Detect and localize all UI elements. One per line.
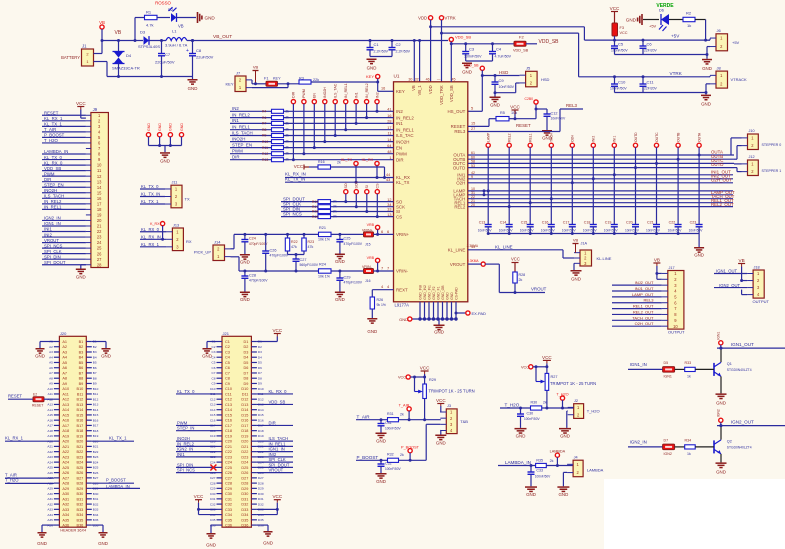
svg-text:C23: C23 — [690, 221, 697, 225]
svg-text:B1: B1 — [79, 340, 84, 344]
svg-text:A27: A27 — [62, 476, 69, 480]
svg-text:GND: GND — [526, 492, 536, 497]
svg-text:C26: C26 — [270, 249, 277, 253]
svg-text:J2: J2 — [574, 399, 578, 403]
svg-text:B7: B7 — [79, 371, 84, 375]
svg-text:A29: A29 — [47, 487, 53, 491]
svg-text:IGN2: IGN2 — [664, 452, 672, 456]
svg-text:D35: D35 — [241, 518, 248, 522]
svg-text:A4: A4 — [49, 355, 53, 359]
svg-text:GND_IN2: GND_IN2 — [423, 285, 427, 300]
svg-text:B5: B5 — [93, 361, 97, 365]
svg-text:C33: C33 — [225, 508, 232, 512]
svg-text:PWM: PWM — [232, 149, 243, 154]
svg-text:L1: L1 — [172, 29, 177, 34]
svg-text:B34: B34 — [93, 513, 99, 517]
svg-text:TRIMPOT 1K - 25 TURN: TRIMPOT 1K - 25 TURN — [550, 381, 596, 386]
svg-text:A31: A31 — [47, 497, 53, 501]
svg-text:GND: GND — [716, 469, 726, 474]
svg-text:C4: C4 — [496, 47, 502, 52]
svg-text:KEY: KEY — [396, 89, 405, 94]
svg-text:B6: B6 — [79, 366, 84, 370]
svg-text:C19: C19 — [605, 221, 612, 225]
svg-text:B10: B10 — [77, 387, 84, 391]
svg-text:14: 14 — [97, 185, 102, 190]
svg-text:1: 1 — [389, 156, 391, 160]
svg-text:2.3KMA: 2.3KMA — [467, 259, 479, 263]
svg-text:IGN1_IN: IGN1_IN — [630, 362, 647, 367]
svg-text:STEP_EN: STEP_EN — [232, 142, 252, 147]
svg-text:+5V: +5V — [732, 40, 740, 45]
svg-text:C4: C4 — [212, 355, 216, 359]
svg-text:13: 13 — [97, 179, 102, 184]
svg-text:1: 1 — [86, 59, 88, 64]
svg-text:A26: A26 — [62, 471, 69, 475]
svg-text:10: 10 — [97, 163, 102, 168]
svg-text:B7: B7 — [93, 371, 97, 375]
svg-text:LAMBDA_IN: LAMBDA_IN — [505, 460, 531, 465]
svg-text:R28: R28 — [519, 273, 526, 277]
svg-text:VCC: VCC — [272, 328, 282, 333]
svg-text:D23: D23 — [241, 455, 248, 459]
svg-text:R16: R16 — [318, 160, 325, 164]
svg-text:C3: C3 — [469, 47, 475, 52]
svg-text:IN2: IN2 — [396, 109, 403, 114]
svg-text:LAMP_OUT: LAMP_OUT — [632, 292, 654, 297]
svg-text:+5V: +5V — [671, 34, 680, 39]
svg-text:C32: C32 — [225, 503, 232, 507]
svg-text:C31: C31 — [210, 497, 216, 501]
svg-text:C12: C12 — [225, 398, 232, 402]
svg-text:D5: D5 — [664, 361, 669, 365]
svg-text:GND: GND — [516, 433, 526, 438]
svg-text:REL1: REL1 — [529, 133, 533, 142]
svg-text:C6: C6 — [225, 366, 230, 370]
svg-text:J3: J3 — [447, 404, 451, 408]
svg-text:GND: GND — [702, 66, 712, 71]
svg-text:A2: A2 — [62, 345, 67, 349]
svg-text:C5: C5 — [618, 42, 624, 47]
svg-text:A18: A18 — [62, 429, 69, 433]
svg-text:INI2: INI2 — [269, 452, 277, 457]
svg-text:27: 27 — [471, 127, 475, 131]
svg-text:D3: D3 — [244, 350, 249, 354]
svg-text:C8: C8 — [225, 377, 230, 381]
svg-text:100nF/50V: 100nF/50V — [385, 427, 401, 431]
svg-text:IGN1_OUT: IGN1_OUT — [731, 342, 754, 347]
svg-text:R1: R1 — [146, 10, 152, 15]
svg-text:J17: J17 — [669, 266, 675, 270]
svg-text:A15: A15 — [62, 413, 69, 417]
svg-text:A25: A25 — [62, 466, 69, 470]
svg-text:T_H2O: T_H2O — [5, 478, 19, 483]
svg-text:20: 20 — [471, 203, 475, 207]
svg-text:C12: C12 — [551, 112, 558, 116]
svg-text:C30: C30 — [210, 492, 216, 496]
svg-text:1k: 1k — [687, 452, 691, 456]
svg-text:D33: D33 — [241, 508, 248, 512]
svg-text:C10: C10 — [210, 387, 216, 391]
svg-text:A36: A36 — [62, 524, 69, 528]
svg-text:11: 11 — [97, 168, 102, 173]
svg-text:C17: C17 — [225, 424, 232, 428]
svg-text:GND: GND — [434, 330, 444, 335]
svg-text:B3: B3 — [93, 350, 97, 354]
svg-text:B15: B15 — [93, 413, 99, 417]
svg-text:SPI_NCS: SPI_NCS — [283, 211, 302, 216]
svg-text:VCC: VCC — [521, 365, 529, 369]
svg-text:VCC: VCC — [398, 376, 406, 380]
svg-text:GND: GND — [450, 292, 454, 300]
svg-text:A7: A7 — [49, 371, 53, 375]
svg-text:R29: R29 — [429, 378, 436, 382]
svg-text:D3: D3 — [258, 350, 262, 354]
svg-text:VB: VB — [654, 258, 660, 263]
svg-text:D34: D34 — [241, 513, 248, 517]
svg-text:B32: B32 — [77, 503, 84, 507]
svg-text:B27: B27 — [93, 476, 99, 480]
svg-text:GND: GND — [376, 439, 386, 444]
svg-text:SCK: SCK — [355, 181, 359, 189]
svg-text:F3: F3 — [620, 26, 624, 30]
svg-text:A16: A16 — [47, 418, 53, 422]
svg-text:C15: C15 — [521, 221, 528, 225]
svg-text:KEY: KEY — [366, 74, 374, 79]
svg-text:U1: U1 — [394, 74, 400, 79]
svg-text:REL3: REL3 — [643, 298, 654, 303]
svg-text:A15: A15 — [47, 413, 53, 417]
svg-text:CS: CS — [376, 183, 380, 189]
svg-text:D14: D14 — [241, 408, 248, 412]
svg-text:C2B0: C2B0 — [525, 97, 534, 101]
svg-text:2k: 2k — [519, 278, 523, 282]
svg-text:43: 43 — [386, 178, 390, 182]
svg-text:2k: 2k — [543, 400, 547, 404]
svg-text:19: 19 — [97, 213, 102, 218]
svg-text:VCC: VCC — [511, 257, 520, 262]
svg-text:10k 1%: 10k 1% — [318, 275, 331, 279]
svg-text:D19: D19 — [241, 434, 248, 438]
svg-text:C29: C29 — [210, 487, 216, 491]
svg-text:VTRK: VTRK — [670, 71, 683, 76]
svg-text:C23: C23 — [225, 455, 232, 459]
svg-text:VDD_SB: VDD_SB — [539, 39, 560, 45]
svg-text:VRIN+: VRIN+ — [362, 229, 373, 233]
svg-text:A35: A35 — [47, 518, 53, 522]
svg-text:C7: C7 — [165, 52, 171, 57]
svg-text:B17: B17 — [77, 424, 84, 428]
svg-text:D13: D13 — [241, 403, 248, 407]
svg-text:C21: C21 — [225, 445, 232, 449]
svg-text:A9: A9 — [62, 382, 67, 386]
svg-text:41: 41 — [387, 108, 391, 112]
svg-text:IGN2: IGN2 — [717, 409, 721, 417]
svg-text:VCC: VCC — [610, 6, 620, 11]
svg-text:A11: A11 — [62, 392, 68, 396]
svg-text:C16: C16 — [210, 418, 216, 422]
svg-text:C31: C31 — [225, 497, 232, 501]
svg-text:22F/20V: 22F/20V — [644, 87, 658, 91]
svg-text:4.7uF/50V: 4.7uF/50V — [495, 55, 512, 59]
svg-text:VRB: VRB — [367, 223, 375, 227]
svg-text:B31: B31 — [77, 497, 84, 501]
svg-text:A21: A21 — [47, 445, 53, 449]
svg-text:J15: J15 — [365, 243, 371, 247]
svg-text:A14: A14 — [62, 408, 69, 412]
svg-text:VB: VB — [573, 238, 579, 243]
svg-text:C8: C8 — [212, 376, 216, 380]
svg-text:A12: A12 — [62, 398, 69, 402]
svg-text:REXT: REXT — [396, 287, 408, 292]
svg-text:IN_REL1: IN_REL1 — [232, 125, 250, 130]
svg-text:A29: A29 — [62, 487, 69, 491]
svg-text:10nF/50V: 10nF/50V — [668, 229, 683, 233]
svg-text:HSD: HSD — [541, 77, 550, 82]
svg-text:C17: C17 — [563, 221, 570, 225]
svg-text:GND: GND — [147, 123, 151, 131]
svg-text:A3: A3 — [62, 350, 67, 354]
svg-text:B21: B21 — [93, 445, 99, 449]
svg-text:A31: A31 — [62, 497, 69, 501]
svg-text:C11: C11 — [225, 392, 232, 396]
svg-text:25: 25 — [97, 246, 102, 251]
svg-text:A3: A3 — [49, 350, 53, 354]
svg-text:LAMBDA: LAMBDA — [587, 468, 604, 473]
svg-text:C35: C35 — [210, 518, 216, 522]
svg-text:R17: R17 — [312, 205, 318, 209]
svg-text:D7: D7 — [664, 438, 669, 442]
svg-text:B23: B23 — [77, 455, 84, 459]
svg-text:B26: B26 — [93, 471, 99, 475]
svg-text:B28: B28 — [77, 482, 84, 486]
svg-text:C9: C9 — [212, 382, 216, 386]
svg-text:C20: C20 — [626, 221, 633, 225]
svg-text:C6: C6 — [647, 42, 653, 47]
svg-text:B4: B4 — [79, 356, 84, 360]
svg-text:REL2_OUT: REL2_OUT — [711, 202, 734, 207]
svg-text:R6: R6 — [262, 116, 266, 120]
svg-text:GND: GND — [571, 277, 581, 282]
svg-text:470pF/100V: 470pF/100V — [270, 254, 289, 258]
svg-text:INJ1_OUT: INJ1_OUT — [635, 286, 654, 291]
svg-text:EN: EN — [313, 93, 317, 98]
svg-text:VCC: VCC — [510, 105, 520, 110]
svg-text:KL_LINE: KL_LINE — [448, 248, 466, 253]
svg-text:GND: GND — [37, 541, 47, 546]
svg-text:INI2: INI2 — [592, 136, 596, 142]
svg-text:IGN1: IGN1 — [664, 374, 672, 378]
svg-text:T_AIR: T_AIR — [5, 472, 17, 477]
svg-text:B15: B15 — [77, 413, 84, 417]
svg-text:GND: GND — [169, 123, 173, 131]
svg-text:10k 1%: 10k 1% — [318, 238, 331, 242]
svg-text:GND: GND — [240, 260, 250, 265]
svg-text:VCC: VCC — [542, 355, 552, 360]
svg-text:A30: A30 — [62, 492, 69, 496]
svg-text:IN2: IN2 — [232, 106, 239, 111]
svg-text:IN_REL1: IN_REL1 — [344, 83, 348, 98]
svg-text:470pF/100V: 470pF/100V — [344, 242, 363, 246]
svg-text:VROUT: VROUT — [531, 287, 547, 292]
svg-text:C10: C10 — [225, 387, 232, 391]
svg-text:GND: GND — [436, 441, 446, 446]
svg-text:GND: GND — [445, 292, 449, 300]
svg-text:F1: F1 — [264, 77, 268, 81]
svg-text:C22: C22 — [669, 221, 676, 225]
svg-text:KL_RX: KL_RX — [362, 158, 374, 162]
svg-text:C5: C5 — [225, 361, 230, 365]
svg-text:D7: D7 — [244, 371, 249, 375]
svg-text:C34: C34 — [225, 513, 232, 517]
svg-text:A26: A26 — [47, 471, 53, 475]
svg-text:A30: A30 — [47, 492, 53, 496]
svg-text:B19: B19 — [77, 434, 84, 438]
svg-text:A32: A32 — [47, 502, 53, 506]
svg-text:44: 44 — [386, 173, 390, 177]
svg-text:GND: GND — [462, 70, 472, 75]
svg-text:B3: B3 — [79, 350, 84, 354]
svg-text:R35: R35 — [536, 458, 543, 462]
svg-text:A34: A34 — [62, 513, 69, 517]
svg-text:GND: GND — [263, 541, 273, 546]
svg-text:26: 26 — [97, 251, 102, 256]
svg-text:A8: A8 — [62, 377, 67, 381]
svg-text:C20: C20 — [225, 440, 232, 444]
svg-text:B30: B30 — [93, 492, 99, 496]
svg-text:T_H2O: T_H2O — [587, 409, 600, 414]
svg-text:IN1: IN1 — [396, 121, 403, 126]
svg-text:C7: C7 — [212, 371, 216, 375]
svg-text:C3: C3 — [225, 350, 230, 354]
svg-text:B2: B2 — [79, 345, 84, 349]
svg-text:48: 48 — [387, 150, 391, 154]
svg-text:B22: B22 — [77, 450, 84, 454]
svg-text:E2: E2 — [33, 392, 37, 396]
svg-text:B27: B27 — [77, 476, 84, 480]
svg-text:C6: C6 — [212, 366, 216, 370]
svg-text:IGN2_IN: IGN2_IN — [630, 440, 647, 445]
svg-text:C13: C13 — [210, 403, 216, 407]
svg-text:D21: D21 — [241, 445, 248, 449]
svg-text:B25: B25 — [77, 466, 84, 470]
svg-text:J21: J21 — [223, 331, 230, 336]
svg-text:J1A: J1A — [581, 242, 588, 246]
svg-text:INO2H: INO2H — [323, 87, 327, 98]
svg-text:15: 15 — [471, 122, 475, 126]
svg-text:D19: D19 — [258, 434, 264, 438]
svg-text:12: 12 — [97, 174, 102, 179]
svg-text:A22: A22 — [47, 450, 53, 454]
svg-text:4.7k: 4.7k — [146, 23, 154, 28]
svg-text:B4: B4 — [93, 355, 97, 359]
svg-text:VCC: VCC — [76, 101, 86, 106]
svg-text:IN_REL2: IN_REL2 — [177, 441, 195, 446]
svg-text:GND: GND — [160, 159, 170, 164]
svg-text:IN2: IN2 — [375, 92, 379, 98]
svg-text:VRIN-: VRIN- — [396, 269, 408, 274]
svg-text:VB: VB — [178, 24, 184, 29]
svg-text:2.3KMA: 2.3KMA — [467, 244, 479, 248]
svg-text:RESET: RESET — [8, 393, 22, 398]
svg-text:B36: B36 — [77, 524, 84, 528]
svg-text:RESET: RESET — [516, 123, 531, 128]
svg-text:A17: A17 — [47, 424, 53, 428]
svg-text:R19: R19 — [312, 215, 318, 219]
svg-text:KL_RX_0: KL_RX_0 — [269, 389, 288, 394]
svg-text:20: 20 — [97, 218, 102, 223]
svg-text:ILS_TAC: ILS_TAC — [334, 83, 338, 98]
svg-text:C14: C14 — [500, 221, 507, 225]
svg-text:GND: GND — [202, 354, 212, 359]
svg-text:B22: B22 — [93, 450, 99, 454]
svg-text:A19: A19 — [62, 434, 69, 438]
svg-text:VCC: VCC — [294, 164, 303, 169]
svg-text:KL_LINE: KL_LINE — [495, 244, 513, 249]
svg-text:C28: C28 — [249, 274, 256, 278]
svg-text:16: 16 — [381, 87, 385, 91]
svg-text:C10: C10 — [618, 80, 626, 85]
svg-text:O2H_OUT: O2H_OUT — [635, 321, 654, 326]
svg-text:B24: B24 — [77, 461, 84, 465]
svg-text:A17: A17 — [62, 424, 69, 428]
svg-text:24: 24 — [97, 240, 102, 245]
svg-text:IN_REL1: IN_REL1 — [396, 127, 414, 132]
svg-text:1k: 1k — [687, 23, 691, 28]
svg-text:STEPPER 1: STEPPER 1 — [762, 169, 782, 173]
svg-text:VB: VB — [253, 65, 259, 70]
svg-text:GND: GND — [188, 86, 198, 91]
svg-text:R4: R4 — [262, 110, 266, 114]
svg-text:SMAZ33CA-TR: SMAZ33CA-TR — [112, 66, 140, 71]
svg-text:C28: C28 — [225, 482, 232, 486]
svg-text:IGN2_OUT: IGN2_OUT — [731, 420, 754, 425]
svg-text:C3: C3 — [212, 350, 216, 354]
svg-text:GND: GND — [158, 123, 162, 131]
svg-text:R13: R13 — [262, 158, 268, 162]
svg-text:VCC: VCC — [436, 398, 446, 403]
svg-text:GND: GND — [560, 433, 570, 438]
svg-text:R30: R30 — [531, 400, 538, 404]
svg-text:GND: GND — [205, 16, 216, 21]
svg-text:KEY: KEY — [273, 77, 281, 81]
svg-text:VDD_SB: VDD_SB — [269, 399, 286, 404]
svg-text:KL_TX_1: KL_TX_1 — [109, 435, 127, 440]
svg-text:D4: D4 — [258, 355, 262, 359]
svg-text:VRIN-: VRIN- — [362, 265, 373, 269]
svg-text:CS-PAD: CS-PAD — [454, 287, 458, 300]
svg-text:C32: C32 — [385, 462, 392, 466]
svg-text:GND_F1: GND_F1 — [436, 286, 440, 299]
svg-text:2.2F/50V: 2.2F/50V — [396, 50, 411, 54]
svg-text:RESET: RESET — [32, 403, 43, 407]
svg-text:D14: D14 — [258, 408, 264, 412]
svg-text:PWM: PWM — [302, 89, 306, 98]
svg-text:C1: C1 — [374, 42, 380, 47]
svg-text:C35: C35 — [225, 518, 232, 522]
svg-text:R2: R2 — [686, 11, 692, 16]
svg-text:VROUT: VROUT — [269, 468, 284, 473]
svg-text:IN1: IN1 — [232, 118, 239, 123]
svg-text:SPI_NCS: SPI_NCS — [177, 468, 195, 473]
svg-text:D5: D5 — [258, 361, 262, 365]
svg-text:B18: B18 — [77, 429, 84, 433]
svg-text:GND: GND — [626, 18, 637, 23]
svg-text:KL_TX_0: KL_TX_0 — [177, 389, 195, 394]
svg-text:L9177A: L9177A — [395, 303, 410, 308]
svg-text:CS: CS — [396, 214, 402, 219]
svg-text:IGN1: IGN1 — [717, 332, 721, 340]
svg-text:17: 17 — [387, 126, 391, 130]
